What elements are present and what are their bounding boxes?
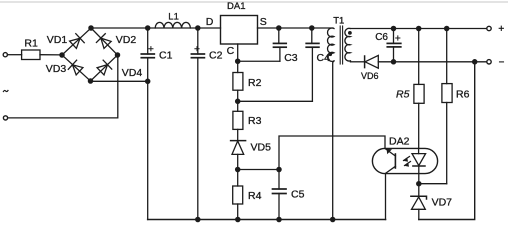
diode VD3: [68, 60, 83, 76]
svg-text:R5: R5: [396, 88, 410, 100]
svg-text:R6: R6: [456, 88, 470, 100]
node C pin: [236, 59, 240, 63]
node minus rail return: [473, 60, 477, 64]
bridge edge wire bottom-right: [91, 55, 118, 81]
svg-text:C1: C1: [159, 50, 173, 62]
node bridge bottom: [88, 79, 92, 83]
capacitor C6: [393, 29, 395, 44]
svg-text:R3: R3: [248, 115, 262, 127]
zener diode VD7: [418, 184, 420, 197]
node bridge right: [115, 53, 119, 57]
wire: [8, 54, 22, 56]
node C5 top: [277, 167, 281, 171]
bridge edge wire left-bottom: [62, 55, 91, 81]
wire DA1 pin C: [237, 44, 239, 61]
wire VD6 to minus terminal: [378, 61, 486, 63]
wire emitter to primary ground: [385, 174, 387, 220]
node C2 top: [196, 26, 200, 30]
wire R6 bottom to LED cathode node: [419, 183, 447, 185]
wire secondary bottom to VD6: [350, 60, 352, 63]
svg-text:VD3: VD3: [46, 63, 67, 75]
phototransistor emitter with arrow: [385, 149, 395, 156]
resistor R2: [237, 61, 239, 72]
node bridge top: [89, 26, 93, 30]
node bridge left: [60, 53, 64, 57]
svg-text:C5: C5: [291, 189, 305, 201]
wire bottom rail primary: [148, 219, 386, 221]
svg-text:VD1: VD1: [47, 34, 68, 46]
phase dot primary: [328, 52, 332, 56]
transformer T1 secondary winding: [345, 28, 350, 61]
resistor R5: [418, 29, 420, 85]
svg-text:VD7: VD7: [432, 196, 453, 208]
node C1 minus junction: [146, 79, 150, 83]
LED in optocoupler: [418, 148, 420, 153]
wire secondary ground rail: [419, 62, 475, 220]
node rail T1: [331, 217, 335, 221]
capacitor C1: [147, 28, 149, 54]
svg-text:S: S: [260, 16, 267, 28]
node C6 bottom: [391, 60, 395, 64]
wire bottom AC to bridge right: [8, 57, 118, 118]
resistor R6: [446, 29, 448, 84]
svg-text:R2: R2: [248, 77, 262, 89]
wire secondary plus rail: [351, 28, 487, 30]
phototransistor collector: [386, 166, 396, 173]
svg-text:R4: R4: [248, 190, 262, 202]
transformer core: [339, 26, 341, 64]
node C1 top: [146, 26, 150, 30]
scan artifact top border: [0, 1, 508, 3]
svg-text:VD2: VD2: [116, 34, 137, 46]
bridge edge wire top-right: [91, 28, 118, 55]
capacitor C2: [197, 28, 199, 54]
svg-text:C: C: [227, 45, 235, 57]
phase dot secondary: [348, 31, 352, 35]
node C6 top: [391, 26, 395, 30]
node C4 top: [310, 26, 314, 30]
IC DA1: [221, 16, 258, 45]
wire feedback from optocoupler: [279, 136, 385, 170]
output terminal plus: [487, 26, 491, 30]
bridge edge wire left-top: [62, 28, 91, 55]
inductor L1: [155, 22, 190, 28]
light arrows: [404, 157, 411, 166]
svg-text:T1: T1: [333, 15, 344, 26]
node rail C2: [196, 217, 200, 221]
node rail C5: [277, 217, 281, 221]
svg-text:C2: C2: [209, 50, 223, 62]
svg-text:L1: L1: [168, 11, 179, 22]
svg-text:D: D: [206, 16, 214, 28]
diode VD2: [96, 34, 112, 50]
node R6 top: [445, 26, 449, 30]
capacitor C3: [278, 28, 280, 43]
svg-text:DA1: DA1: [227, 1, 245, 12]
capacitor C5: [278, 170, 280, 190]
input terminal top: [3, 53, 7, 57]
svg-text:C3: C3: [284, 52, 298, 64]
capacitor C4: [311, 28, 313, 43]
wire node to C5: [238, 169, 279, 171]
resistor R3: [237, 101, 239, 111]
diode VD6: [364, 56, 366, 68]
wire C pin to C3 bottom: [238, 60, 280, 62]
wire top rail bridge to DA1: [91, 27, 221, 29]
svg-text:VD6: VD6: [361, 71, 379, 81]
wire S rail: [258, 27, 334, 29]
svg-text:C6: C6: [375, 32, 388, 43]
svg-text:DA2: DA2: [389, 136, 410, 148]
resistor R1: [22, 50, 40, 60]
node C3 top: [277, 26, 281, 30]
input terminal bottom: [3, 116, 7, 120]
transformer T1 primary winding: [328, 28, 334, 61]
node R5 top: [417, 26, 421, 30]
AC symbol: [3, 90, 8, 91]
svg-text:VD4: VD4: [122, 67, 143, 79]
resistor R4: [237, 170, 239, 187]
wire bridge bottom to C1: [91, 80, 148, 82]
zener diode VD5: [231, 140, 246, 142]
wire node to C4 bottom: [238, 100, 313, 102]
node R2 bottom: [236, 99, 240, 103]
output terminal minus: [487, 60, 491, 64]
node rail R4: [236, 217, 240, 221]
wire: [40, 54, 62, 56]
diode VD1: [69, 34, 84, 50]
optocoupler DA2 body: [372, 148, 437, 173]
svg-text:R1: R1: [24, 37, 38, 49]
phototransistor base bar: [394, 154, 396, 168]
node LED cathode: [417, 182, 421, 186]
svg-text:VD5: VD5: [251, 142, 272, 154]
node VD5 anode: [236, 167, 240, 171]
diode VD4: [96, 60, 112, 76]
